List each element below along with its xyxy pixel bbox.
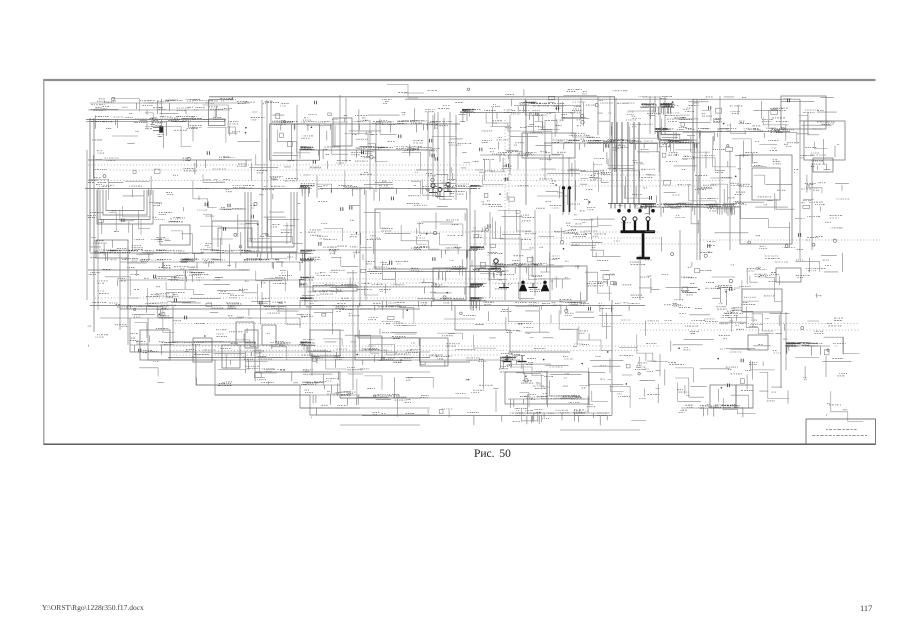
wire vertical run 23 (449, 112, 451, 197)
wire vertical run 35 (659, 96, 661, 207)
wire drops bottom right (703, 346, 789, 417)
wire vertical run 49 (654, 96, 656, 134)
wire vertical run 39 (696, 100, 698, 260)
wire horizontal bus 41 (175, 323, 858, 325)
wire horizontal bus 39 (90, 305, 645, 307)
frame left border (43, 79, 45, 445)
wire stubs low left2 (157, 351, 298, 385)
wire nested loop A2 (100, 190, 150, 220)
dark bottom bar (637, 257, 651, 260)
drawing title block box (806, 419, 876, 444)
wire vertical run 12 (352, 270, 354, 390)
wire vertical run 60 (609, 96, 611, 170)
transformer lead drops (611, 204, 651, 209)
wire horizontal bus 24 (470, 237, 660, 239)
wire vertical run 21 (437, 112, 439, 194)
wire vertical run 48 (649, 96, 651, 134)
wire vertical run 61 (615, 98, 617, 172)
wire vertical run 52 (489, 212, 491, 298)
wire bends bottom right (675, 360, 789, 413)
wire stubs upper mid2 (479, 97, 659, 205)
wire drops mid center2 (470, 250, 547, 311)
wire horizontal bus 22 (640, 206, 740, 208)
wire horizontal bus 16 (110, 169, 645, 171)
component box 3 (333, 118, 352, 146)
wire horizontal bus 57 (90, 102, 250, 104)
component box 4 (781, 96, 826, 129)
wire n-loop 1 (212, 221, 258, 251)
small components top strip (467, 88, 469, 90)
component box 25 (140, 330, 170, 360)
value labels mid center2 (468, 211, 652, 305)
component box 30 (355, 336, 382, 360)
polarized capacitor 2 (541, 281, 549, 292)
footer file path (42, 603, 144, 612)
wire vertical run 15 (223, 119, 225, 121)
value labels upper mid2 (470, 97, 670, 210)
wire horizontal bus 27 (367, 271, 505, 273)
value labels low left2 (143, 342, 285, 386)
component box 26 (193, 338, 212, 362)
wire horizontal bus 1 (209, 96, 615, 98)
dark dot pair (562, 186, 571, 212)
wire horizontal bus 21 (320, 188, 470, 190)
component box 27 (245, 330, 258, 348)
dark contact bar (621, 230, 656, 233)
wire horizontal bus 26 (700, 239, 880, 241)
wire horizontal bus 50 (215, 359, 520, 361)
small components low left2 (139, 349, 262, 378)
wire bends low left2 (139, 347, 287, 377)
wire staircase 2 (148, 318, 430, 415)
wire vertical run 38 (597, 97, 599, 135)
wire stubs right column (803, 175, 849, 298)
wire horizontal bus 55 (300, 407, 430, 409)
wire drops low center2 (500, 306, 629, 426)
value labels upper left (88, 99, 315, 195)
ground symbol near capacitors 2 (529, 283, 538, 288)
wire bends right col low (824, 337, 864, 421)
wire horizontal bus 32 (300, 286, 480, 288)
component box 15 (262, 325, 276, 345)
wire vertical run 24 (455, 115, 457, 200)
component box 29 (310, 330, 340, 356)
wire vertical run 37 (692, 99, 694, 207)
wire bends low center (314, 308, 496, 398)
small components mid right (664, 176, 788, 258)
wire horizontal bus 29 (300, 300, 480, 302)
wire horizontal bus 38 (95, 297, 505, 299)
wire drops right col low (812, 346, 821, 356)
value labels upper center (299, 100, 475, 204)
ground tee symbol 1 (503, 355, 512, 362)
wire vertical run 31 (614, 97, 616, 172)
wire horizontal bus 12 (300, 149, 432, 151)
wire vertical run 2 (93, 118, 95, 332)
component box 11 (470, 266, 587, 301)
component box 24 (522, 133, 575, 158)
small components low left (127, 275, 262, 337)
wire horizontal bus 20 (85, 188, 310, 190)
wire vertical run 28 (568, 157, 570, 215)
component box 14 (236, 322, 254, 345)
component box 2 (270, 124, 320, 160)
wire vertical run 5 (119, 250, 121, 330)
small components right column (799, 205, 837, 246)
wire bends mid left (109, 206, 303, 258)
component box 18 (710, 385, 736, 408)
wire horizontal bus 35 (88, 269, 250, 271)
wire vertical run 46 (780, 312, 782, 388)
small components low center2 (501, 307, 641, 385)
wire vertical run 63 (509, 115, 511, 175)
circle-stem symbol 3 (444, 183, 452, 192)
wire vertical run 25 (469, 186, 471, 300)
polarized capacitor 1 (519, 281, 527, 292)
thick stems (623, 221, 649, 231)
wire horizontal bus 43 (100, 317, 300, 319)
wire stubs low mid-right (666, 268, 790, 333)
wire nested loop B1 (245, 192, 297, 252)
wire vertical run 6 (127, 255, 129, 345)
wire drops mid center (300, 250, 468, 311)
wire horizontal bus 28 (490, 266, 563, 268)
wire horizontal bus 63 (340, 424, 420, 426)
wire horizontal bus 17 (300, 174, 662, 176)
wire horizontal bus 10 (655, 131, 790, 133)
wire vertical run 16 (359, 188, 361, 306)
dotted vertical pair (505, 120, 509, 215)
wire horizontal bus 15 (88, 164, 470, 166)
wire vertical run 20 (432, 115, 434, 197)
wire vertical run 40 (699, 132, 701, 260)
wire horizontal bus 31 (310, 282, 545, 284)
wire vertical run 26 (504, 210, 506, 300)
wire vertical run 56 (339, 95, 341, 165)
wire horizontal bus 47 (168, 357, 430, 359)
small components low center (313, 310, 463, 414)
value labels top strip (398, 89, 627, 94)
wire vertical run 42 (729, 150, 731, 250)
wire vertical run 58 (369, 120, 371, 190)
component box 17 (748, 335, 768, 350)
wire nested loop A4 (106, 190, 144, 211)
wire n-loop 2 (218, 228, 252, 247)
wire horizontal bus 53 (215, 394, 360, 396)
wire vertical run 8 (266, 100, 268, 253)
wire bends upper center (307, 119, 457, 199)
component box 16 (742, 289, 782, 312)
component box 12 (375, 209, 467, 269)
component box 20 (505, 372, 547, 404)
small components bottom right (678, 347, 744, 388)
component box 8 (752, 168, 780, 200)
value labels right column (795, 183, 849, 296)
wire drops mid left (106, 253, 297, 269)
dotted line capacitor row (495, 283, 545, 285)
small components upper center (311, 101, 438, 201)
frame bottom border (44, 443, 876, 445)
wire vertical run 3 (86, 150, 88, 300)
small components mid left (98, 202, 268, 248)
wire stubs low center (308, 306, 500, 418)
wire vertical run 57 (345, 98, 347, 162)
wire vertical run 11 (309, 260, 311, 340)
wire horizontal bus 2 (209, 99, 233, 101)
small components mid center (319, 206, 448, 299)
wire vertical run 14 (231, 97, 233, 100)
wire bends low mid-right (742, 276, 783, 334)
figure caption (474, 448, 511, 460)
wire vertical run 7 (261, 100, 263, 253)
wire stubs mid center (302, 206, 465, 306)
wire vertical run 36 (679, 230, 681, 300)
wire vertical run 43 (799, 99, 801, 129)
ground tee symbol 2 (518, 355, 527, 362)
small components mid center2 (474, 210, 616, 285)
wire horizontal bus 46 (170, 354, 500, 356)
wire vertical run 19 (427, 112, 429, 200)
wire vertical run 47 (785, 312, 787, 370)
wire descender 1 (358, 306, 470, 362)
wire drops upper left (95, 103, 300, 196)
wire bends mid center (324, 212, 463, 295)
wire stubs low left (88, 270, 300, 347)
wire stubs bottom right (665, 339, 788, 404)
wire horizontal bus 23 (305, 231, 660, 233)
dark stem lower (642, 233, 645, 257)
wire bends top strip (387, 84, 418, 98)
wire drops upper mid2 (470, 106, 659, 216)
wire horizontal bus 56 (305, 249, 470, 251)
wire horizontal bus 52 (196, 384, 340, 386)
wire vertical run 1 (89, 118, 91, 252)
component box 10 (433, 268, 466, 300)
value labels mid center (299, 205, 465, 306)
contact rings row (622, 217, 650, 221)
wire nested loop B3 (251, 192, 291, 242)
value labels bottom right (668, 336, 801, 413)
wire descender 2 (455, 306, 570, 352)
wire vertical run 29 (574, 160, 576, 210)
component box 23 (96, 240, 128, 258)
wire nested loop B2 (248, 192, 294, 247)
component box 19 (736, 385, 753, 408)
wire bends right column (796, 188, 823, 272)
wire vertical run 33 (611, 300, 613, 415)
wire horizontal bus 65 (786, 345, 830, 347)
wire horizontal bus 54 (340, 397, 470, 399)
wire bends low left (105, 271, 301, 347)
wire horizontal bus 8 (86, 120, 225, 122)
wire vertical run 53 (519, 215, 521, 300)
wire vertical run 51 (474, 210, 476, 300)
value labels low center2 (499, 302, 659, 421)
wire drops mid right (661, 207, 734, 217)
wire vertical run 62 (544, 120, 546, 180)
component box 13 (313, 286, 357, 292)
wire nested loop A1 (97, 190, 153, 224)
wire vertical run 17 (365, 190, 367, 300)
wire horizontal bus 58 (88, 109, 230, 111)
wire staircase 1 (130, 318, 360, 408)
wire horizontal bus 62 (508, 398, 590, 400)
value labels right col low (793, 318, 847, 405)
wire bends upper mid2 (483, 98, 660, 198)
wire bends upper right (661, 111, 827, 172)
wire vertical run 18 (296, 105, 298, 180)
wire vertical run 22 (443, 118, 445, 200)
wire staircase 3 (173, 306, 420, 398)
wire vertical run 4 (97, 188, 99, 310)
wire horizontal bus 49 (196, 351, 430, 353)
wire vertical run 44 (799, 129, 801, 260)
wire vertical run 34 (639, 255, 641, 300)
component box 28 (222, 345, 240, 368)
small components low mid-right (682, 269, 733, 293)
value labels upper right (660, 96, 834, 169)
component box 22 (160, 225, 190, 245)
wire horizontal bus 4 (462, 112, 556, 114)
wire drops low left (120, 270, 300, 355)
wire horizontal bus 7 (86, 118, 209, 120)
wire vertical run 27 (562, 155, 564, 215)
wire horizontal bus 36 (120, 279, 300, 281)
wire vertical run 10 (304, 188, 306, 306)
wire stubs mid right (662, 176, 793, 267)
open circle symbol (491, 259, 501, 269)
wire drops low left2 (231, 352, 292, 382)
dark component block (153, 121, 166, 136)
wire horizontal bus 30 (305, 278, 530, 280)
wire drops upper center (302, 113, 469, 197)
wire horizontal bus 51 (255, 371, 430, 373)
wire vertical run 13 (208, 100, 210, 120)
small components upper right (663, 99, 790, 158)
frame top border (44, 79, 876, 81)
value labels mid left (88, 203, 295, 265)
wire vertical run 50 (664, 96, 666, 134)
footer page number (860, 603, 872, 613)
component box 7 (740, 155, 792, 244)
wire horizontal bus 6 (544, 142, 700, 144)
wire stubs upper right (662, 97, 839, 173)
wire horizontal bus 9 (270, 123, 460, 125)
contact dots row (617, 209, 655, 213)
circle-stem symbol 1 (429, 184, 437, 193)
wire horizontal bus 11 (640, 106, 672, 108)
wire horizontal bus 40 (120, 308, 420, 310)
component box 1 (209, 119, 226, 126)
small components right col low (801, 327, 829, 355)
value labels low left (88, 267, 313, 346)
wire horizontal bus 37 (300, 286, 470, 288)
wire horizontal bus 33 (90, 252, 305, 254)
component box 9 (776, 268, 801, 282)
wire horizontal bus 18 (88, 180, 725, 182)
wire horizontal bus 44 (170, 345, 660, 347)
wire horizontal bus 5 (514, 105, 581, 107)
circle-stem symbol 2 (436, 188, 444, 197)
wire horizontal bus 42 (640, 329, 860, 331)
transformer bus line (608, 203, 656, 205)
wire drops low center (300, 306, 484, 426)
wire bends mid right (678, 175, 794, 227)
value labels low center (299, 303, 492, 415)
component box 5 (804, 121, 845, 160)
wire drops upper right (661, 107, 714, 152)
wire horizontal bus 64 (560, 429, 640, 431)
wire horizontal bus 34 (120, 261, 300, 263)
wire horizontal bus 14 (480, 154, 560, 156)
wire horizontal bus 19 (470, 185, 722, 187)
wire horizontal bus 60 (362, 415, 612, 417)
wire horizontal bus 61 (515, 412, 610, 414)
wire box interior vertical (290, 124, 292, 160)
wire horizontal bus 45 (170, 350, 640, 352)
transformer primary leads (612, 122, 639, 204)
wire vertical run 45 (811, 163, 813, 250)
wire vertical run 32 (586, 270, 588, 300)
component box 21 (547, 372, 589, 404)
wire vertical run 54 (534, 210, 536, 296)
component box 6 (813, 158, 833, 172)
wire horizontal bus 3 (405, 98, 800, 100)
small components upper left (103, 97, 292, 177)
wire stubs top strip (404, 89, 597, 96)
wire horizontal bus 25 (470, 243, 700, 245)
component box 31 (420, 338, 448, 366)
wire vertical run 59 (375, 122, 377, 192)
wire horizontal bus 59 (681, 407, 753, 409)
wire bends low center2 (507, 306, 668, 421)
small components upper mid2 (480, 96, 652, 203)
wire stubs low center2 (506, 311, 660, 421)
wire nested loop A3 (103, 190, 147, 215)
wire vertical run 41 (719, 96, 721, 207)
wire stubs mid center2 (472, 213, 660, 304)
wire horizontal bus 13 (88, 159, 252, 161)
wire bends upper left (89, 99, 311, 208)
wire stubs upper left (91, 99, 299, 200)
ground symbol near capacitors (499, 283, 509, 288)
value labels mid right (661, 172, 795, 269)
wire stubs upper center (304, 108, 470, 201)
wire vertical run 55 (549, 214, 551, 300)
wire stubs right col low (795, 321, 851, 416)
wire horizontal bus 48 (130, 344, 310, 346)
wire vertical run 30 (525, 100, 527, 205)
value labels low mid-right (662, 269, 779, 334)
wire bends mid center2 (475, 210, 621, 298)
wire stubs mid left (90, 201, 301, 266)
wire vertical run 9 (270, 100, 272, 253)
